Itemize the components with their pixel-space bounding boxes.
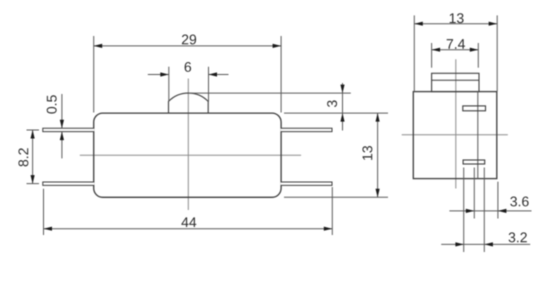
wire: left view vertical center line bbox=[187, 79, 189, 211]
wire: side view vertical center line bbox=[455, 59, 457, 188]
value label 13: body height dimension (front view) bbox=[284, 196, 388, 198]
value label 6: bump width dimension bbox=[168, 67, 170, 102]
node C: component body (side view) rectangle bbox=[413, 92, 497, 179]
node D: actuator cap (side view) bbox=[432, 73, 479, 91]
value label 29: body length dimension bbox=[93, 36, 95, 113]
node A: component body (front view) rounded rectangle 29x13 bbox=[94, 113, 281, 197]
value label 3.2: lead width dimension bbox=[441, 243, 530, 245]
node F: lower terminal slot (side view) bbox=[463, 160, 485, 164]
value label 3: bump height dimension bbox=[189, 92, 351, 94]
wire: side view horizontal center line bbox=[402, 134, 508, 136]
wire: slot-edge extension lines below body bbox=[463, 168, 465, 253]
value label 7.4: cap width dimension bbox=[431, 43, 433, 68]
value label 13: body width dimension (side view) bbox=[413, 15, 415, 91]
wire: bottom-right lead bbox=[281, 182, 332, 185]
value label 3.6: lead offset dimension bbox=[449, 210, 531, 212]
wire: left view horizontal center line bbox=[80, 154, 301, 156]
node E: upper terminal slot (side view) bbox=[463, 106, 486, 111]
wire: top-right lead bbox=[281, 128, 332, 131]
wire: internal edge line in side view bbox=[477, 92, 479, 179]
value label 8.2: lead spacing dimension bbox=[27, 129, 40, 131]
wire: bottom-left lead bbox=[43, 182, 95, 185]
wire: top-left lead bbox=[43, 128, 95, 131]
value label 0.5: lead thickness dimension bbox=[61, 94, 63, 128]
value label 44: overall length dimension bbox=[43, 189, 45, 235]
node B: actuator bump on top of body (front view) bbox=[169, 93, 209, 113]
